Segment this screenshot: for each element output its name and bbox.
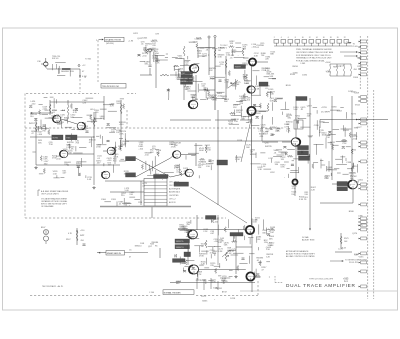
ref labels beside plug column upper: [348, 58, 363, 116]
svg-text:C5: C5: [129, 249, 131, 251]
svg-text:C319: C319: [354, 92, 360, 94]
svg-text:-150: -150: [80, 240, 84, 242]
ref labels pickoff: [286, 107, 312, 120]
resistor (detail 5) in wiring detail left block: [70, 103, 72, 109]
ref labels right lower: [338, 248, 359, 257]
wiring detail left lower extra: [76, 133, 126, 176]
resistor (detail 1) in wiring detail V494 core extra: [192, 76, 194, 82]
dashed partition bottom left: [30, 295, 161, 297]
wiring detail right rails: [320, 123, 356, 174]
svg-text:C168: C168: [197, 38, 203, 40]
svg-text:22K: 22K: [152, 45, 156, 47]
capacitor (detail 0) in wiring detail left upper extra: [34, 119, 37, 121]
capacitor (detail 1) in wiring detail below bus: [283, 147, 286, 149]
svg-text:12K: 12K: [264, 242, 268, 244]
arrowhead on wire: [79, 76, 81, 78]
boxed net label GND REF: [184, 252, 191, 257]
interconnecting socket row (pins 1-11): [274, 37, 349, 46]
resistor (detail 7) in wiring detail left block: [90, 115, 92, 121]
ref labels center-right extra: [237, 131, 296, 174]
boxed net label TRIG OUT: [206, 216, 217, 220]
svg-text:R453: R453: [337, 111, 343, 113]
dashed partition left vertical: [24, 94, 26, 219]
resistor (detail 2) in wiring detail left block: [48, 129, 50, 135]
svg-text:1.5K: 1.5K: [53, 173, 58, 175]
resistor R167: [76, 231, 78, 241]
svg-text:12K: 12K: [177, 79, 181, 81]
wire vertical x218: [217, 110, 219, 205]
dashed partition bottom vertical: [257, 281, 259, 295]
interconnecting plug column (dashed): [359, 36, 361, 90]
resistor (detail 1) in wiring detail right rails: [351, 149, 353, 155]
svg-text:12K: 12K: [116, 132, 120, 134]
boxed net label SWEEP TRIG: [296, 97, 307, 101]
boxed net label NORM TRIG: [230, 233, 243, 237]
vacuum tube V14B: [246, 272, 255, 281]
terminal post above node A: [78, 65, 80, 67]
wire vertical x296 lower: [295, 146, 297, 179]
svg-text:10K: 10K: [350, 178, 354, 180]
wire horizontal y165: [36, 164, 120, 166]
svg-text:1.5K: 1.5K: [155, 63, 160, 65]
resistor (detail 1) in wiring detail top mid extra: [229, 46, 235, 48]
svg-text:270K: 270K: [210, 79, 215, 81]
terminal post x215: [214, 35, 216, 37]
boxed net label NORM: [52, 135, 63, 140]
svg-text:12K: 12K: [233, 107, 237, 109]
svg-text:56K: 56K: [38, 142, 42, 144]
wiring detail upper-mid: [169, 56, 249, 100]
wire vertical x352: [351, 96, 353, 180]
svg-text:+150: +150: [224, 82, 230, 84]
svg-text:S/N 101: S/N 101: [52, 58, 59, 60]
wire sweep gate onward: [125, 252, 149, 254]
svg-text:1.5K: 1.5K: [226, 55, 231, 57]
ref labels below bus: [235, 145, 286, 171]
arrowhead R167 top: [76, 230, 78, 232]
svg-text:V534: V534: [355, 105, 361, 107]
svg-text:4.7K: 4.7K: [73, 112, 78, 114]
svg-text:V422: V422: [346, 185, 352, 187]
svg-text:SW387: SW387: [250, 154, 258, 156]
dashed net delayed trigger: [97, 40, 99, 82]
svg-text:+100: +100: [217, 95, 223, 97]
wiring detail lower cluster extra: [181, 230, 260, 278]
resistor (detail 1) in wiring detail lower cluster extra: [224, 227, 226, 233]
boxed net label SWEEP A: [175, 239, 190, 243]
wire R415 top: [67, 100, 69, 105]
svg-text:68K: 68K: [241, 119, 245, 121]
ref labels lower cluster top: [179, 219, 219, 235]
ground lower cluster: [234, 275, 237, 278]
svg-text:INPUT: INPUT: [29, 123, 36, 125]
capacitor C489: [204, 88, 207, 90]
resistor (detail 2) in wiring detail crossover: [180, 171, 182, 177]
resistor R21: [225, 252, 227, 261]
svg-text:56K: 56K: [174, 145, 178, 147]
svg-text:1.5K: 1.5K: [261, 166, 266, 168]
ref labels mid right: [258, 98, 293, 138]
wiring detail right mid extra: [313, 108, 352, 177]
svg-text:C 100: C 100: [149, 292, 154, 294]
ref labels lower cluster bottom: [176, 272, 228, 286]
svg-text:V421: V421: [133, 33, 139, 35]
svg-text:2.2K: 2.2K: [295, 118, 300, 120]
wire bus into V533: [262, 141, 278, 143]
svg-text:12K: 12K: [209, 70, 213, 72]
dashed partition upper: [26, 93, 99, 95]
boxed net label TRIGGER PICKOFF bottom: [163, 290, 194, 295]
capacitor C14: [242, 258, 245, 260]
svg-text:75K: 75K: [42, 131, 46, 133]
wire table to partition: [151, 206, 153, 218]
svg-text:ON PLUG-IN UNITS: ON PLUG-IN UNITS: [41, 194, 59, 196]
vacuum tube V414A: [53, 115, 61, 123]
svg-text:1.5K: 1.5K: [234, 121, 239, 123]
resistor (detail 3) in wiring detail crossover: [141, 164, 143, 170]
svg-text:DC BAL: DC BAL: [302, 236, 309, 239]
svg-text:+150: +150: [31, 103, 37, 105]
wire table left rail: [140, 181, 142, 205]
svg-text:SW214: SW214: [135, 246, 143, 248]
svg-text:+1 JM: +1 JM: [128, 40, 133, 42]
boxed net label VERT AMP: [174, 182, 189, 186]
svg-text:V274: V274: [354, 181, 360, 183]
ref labels beside plug column mid: [346, 127, 364, 187]
svg-text:PINS, TERMINAL NUMBERS SHOWN: PINS, TERMINAL NUMBERS SHOWN: [296, 48, 332, 51]
resistor (detail 1) in wiring detail trigger takeoff: [245, 75, 247, 81]
ref labels divider: [326, 66, 345, 74]
svg-text:NORM: NORM: [53, 137, 59, 139]
switch SW460 contact table: [144, 179, 167, 207]
resistor R502: [242, 48, 244, 56]
boxed net label TRIG: [66, 135, 78, 140]
vacuum tube V494B pentode: [189, 100, 198, 108]
svg-text:INVERT: INVERT: [235, 67, 241, 69]
svg-text:5.6K: 5.6K: [253, 222, 258, 224]
svg-text:5.6K: 5.6K: [293, 109, 298, 111]
svg-text:1M: 1M: [82, 125, 85, 127]
arrow line to interconnecting plug note: [330, 260, 343, 262]
wire V573 cathode down: [352, 189, 354, 203]
wire Q33 emitter to node A: [47, 68, 80, 70]
wire vertical x251 long: [251, 116, 253, 225]
capacitor (detail 0) in wiring detail lower cluster: [267, 234, 270, 236]
dashed partition upper cont: [127, 93, 136, 95]
resistor (detail 0) in wiring detail lower mid extra: [259, 260, 261, 266]
resistor (detail 2) in wiring detail below bus: [287, 155, 293, 157]
svg-text:22K: 22K: [265, 59, 269, 61]
arrowhead x310 bottom: [309, 229, 311, 231]
svg-text:100K: 100K: [327, 169, 332, 171]
svg-text:47: 47: [129, 257, 131, 259]
svg-text:ON INTERCONNECTING SOCKET ARE: ON INTERCONNECTING SOCKET ARE: [296, 51, 334, 54]
junction x94/y137: [93, 136, 94, 137]
svg-text:1.5K: 1.5K: [49, 144, 54, 146]
svg-text:OF DIAGRAM.: OF DIAGRAM.: [41, 205, 54, 208]
resistor (detail 1) in wiring detail left upper extra: [39, 110, 41, 116]
resistor R418: [93, 117, 95, 127]
resistor (detail 1) in wiring detail right mid extra: [351, 166, 353, 172]
vacuum tube V504B: [247, 86, 255, 93]
svg-text:B567: B567: [263, 134, 269, 136]
ref labels left of sweep trig: [286, 63, 308, 87]
capacitor (detail 3) in wiring detail lower cluster: [192, 268, 195, 270]
vacuum tube V414B: [77, 122, 85, 130]
note text block pin designations: [296, 48, 334, 63]
svg-text:ALTERNATE: ALTERNATE: [169, 187, 181, 190]
boxed net label +GATE: [126, 157, 136, 161]
ground x94: [92, 186, 95, 189]
ref labels near sweep gate: [135, 242, 159, 248]
boxed net label TRIG A: [259, 82, 268, 86]
boxed net label CRT PLATE: [337, 187, 348, 191]
svg-text:CH 1: CH 1: [182, 73, 186, 75]
resistor (detail 4) in wiring detail upper-mid: [187, 77, 189, 83]
svg-text:270K: 270K: [236, 112, 241, 114]
svg-text:56K: 56K: [246, 147, 250, 149]
ref labels near V573: [324, 167, 357, 180]
svg-text:100K: 100K: [116, 103, 121, 105]
vacuum tube V454B: [185, 169, 193, 177]
wire diag to V454A grid: [171, 156, 174, 159]
wire note bracket top: [38, 189, 40, 191]
note text to interconnecting plug: [345, 259, 368, 263]
wire into NORM box: [30, 136, 52, 138]
wire from J1 down: [149, 52, 151, 64]
svg-text:AR 47: AR 47: [222, 291, 227, 294]
svg-text:DC SHIFT: DC SHIFT: [321, 112, 331, 114]
svg-text:B586: B586: [349, 211, 355, 213]
resistor R30 (thick bar style): [62, 68, 71, 70]
svg-text:12K: 12K: [198, 167, 202, 169]
svg-text:56K: 56K: [276, 130, 280, 132]
wire crossover diagonal 1: [136, 158, 171, 177]
svg-text:D412: D412: [344, 130, 350, 132]
resistor (detail 2) in wiring detail V494 core extra: [208, 91, 210, 97]
svg-text:R171: R171: [201, 296, 207, 298]
resistor (detail 1) in wiring detail lower cluster: [232, 240, 238, 242]
svg-text:5.6K: 5.6K: [87, 179, 92, 181]
wire V504A plate out: [257, 61, 269, 63]
diagonal wire cathode V513: [241, 118, 252, 162]
svg-text:PLUG: PLUG: [353, 46, 359, 48]
capacitor (detail 0) in wiring detail lower cluster extra: [183, 271, 186, 273]
resistor R421: [120, 104, 122, 114]
wire bus y120: [215, 119, 236, 121]
junction y165: [67, 164, 68, 165]
svg-text:D193: D193: [308, 135, 314, 137]
wire x252 lower: [251, 281, 253, 292]
wiring detail left upper extra: [39, 97, 63, 130]
wire horizontal y203: [320, 202, 353, 204]
capacitor (detail 2) in wiring detail mid right: [297, 120, 299, 123]
dashed plug column right: [367, 36, 369, 299]
svg-text:2.2K: 2.2K: [119, 133, 124, 135]
svg-text:V135: V135: [359, 256, 365, 258]
arrowhead pot R21: [227, 254, 230, 257]
svg-text:ADJUST R333: ADJUST R333: [302, 239, 314, 242]
svg-text:+150: +150: [183, 170, 189, 172]
svg-text:56K: 56K: [269, 238, 273, 240]
svg-text:1.5K: 1.5K: [261, 127, 266, 129]
neon lamp B167: [44, 230, 49, 245]
wire y247 link: [236, 246, 252, 248]
svg-text:68K: 68K: [270, 54, 274, 56]
svg-text:56K: 56K: [270, 76, 274, 78]
wiring detail lower mid extra: [197, 233, 262, 280]
resistor (detail 0) in wiring detail right rails extra: [332, 145, 334, 151]
wire V504B to V513: [251, 93, 253, 106]
wire vertical x36: [35, 120, 37, 165]
wire into HORIZ OUT box: [332, 183, 337, 185]
dashed partition mid horizontal: [25, 127, 285, 129]
note text block bottom left 1: [41, 190, 69, 196]
svg-text:270K: 270K: [235, 159, 240, 161]
wire x236: [235, 236, 237, 274]
wiring detail trigger takeoff: [245, 70, 276, 98]
resistor (detail 6) in wiring detail lower cluster: [243, 225, 245, 231]
wire Q33 collector: [45, 58, 47, 62]
svg-text:2.2K: 2.2K: [342, 143, 347, 145]
input connector J1: [148, 48, 152, 52]
resistor R481: [214, 49, 216, 58]
svg-text:56K: 56K: [286, 124, 290, 126]
svg-text:14: 14: [316, 37, 318, 39]
wire grid feed V494A: [170, 74, 190, 76]
svg-text:AUX IN: AUX IN: [169, 201, 176, 204]
svg-text:68K: 68K: [192, 97, 196, 99]
svg-text:3.3K: 3.3K: [254, 55, 259, 57]
svg-text:10K: 10K: [270, 94, 274, 96]
svg-text:Q367: Q367: [307, 105, 313, 107]
wire Q33 base lead: [41, 63, 44, 65]
boxed net label CHOP BLANKING: [173, 259, 186, 263]
terminal post x209: [208, 36, 210, 38]
svg-text:3.3K: 3.3K: [218, 251, 223, 253]
boxed net label SW460 TRIG MODE: [154, 175, 169, 179]
svg-text:1.5K: 1.5K: [206, 166, 211, 168]
ref labels beside plug column lower: [349, 211, 364, 258]
svg-text:TEK 555/21A R1 + AL PL: TEK 555/21A R1 + AL PL: [42, 285, 63, 288]
capacitor (detail 0) in wiring detail upper-mid: [167, 89, 170, 91]
svg-text:68K: 68K: [176, 283, 180, 285]
capacitor C418: [86, 131, 89, 133]
plug pin boxes with arrows: [359, 40, 367, 288]
capacitor (detail 2) in wiring detail right rails: [342, 147, 345, 149]
wiring detail above chassis line: [104, 197, 140, 206]
ref labels upper-mid B: [176, 56, 218, 103]
svg-text:+100V: +100V: [325, 62, 331, 64]
capacitor (detail 0) in wiring detail V533 lower: [291, 164, 294, 166]
wire node A down: [79, 69, 81, 78]
svg-text:16: 16: [323, 37, 325, 39]
resistor (detail 0) in wiring detail right mid extra: [312, 163, 314, 169]
boxed net label TRIGGER PICKOFF upper: [101, 84, 126, 89]
boxed net label CH1 GAIN: [181, 72, 193, 75]
vacuum tube V433A: [102, 171, 110, 179]
resistor R24: [205, 240, 207, 248]
svg-text:8: 8: [295, 37, 296, 39]
wiring detail top mid extra: [200, 43, 247, 56]
svg-text:270K: 270K: [96, 147, 101, 149]
arrowhead y119 to plug: [356, 119, 358, 121]
wire V454A plate: [181, 154, 196, 156]
svg-text:D227: D227: [196, 280, 202, 282]
arrowhead to plug: [350, 42, 352, 44]
svg-text:TRIG: TRIG: [66, 137, 71, 139]
wire vertical x50: [49, 100, 51, 115]
capacitor (detail 1) in wiring detail right rails extra: [328, 132, 331, 134]
svg-text:SW235: SW235: [265, 146, 273, 148]
svg-text:22K: 22K: [307, 116, 311, 118]
wire y269: [199, 269, 246, 271]
wire into delayed trig label: [99, 39, 102, 41]
capacitor C458: [209, 160, 212, 162]
svg-text:TERMINALS OF EACH PLUG-IN UNIT: TERMINALS OF EACH PLUG-IN UNIT: [296, 57, 332, 60]
wire V424A to node: [68, 153, 94, 155]
capacitor (detail 2) in wiring detail right mid extra: [301, 150, 303, 153]
wire x188: [187, 245, 189, 265]
resistor R516: [267, 103, 269, 111]
boxed net label SWEEP GATE IN: [106, 251, 125, 256]
wire y282 bottom bus: [170, 282, 255, 284]
ref labels trigger takeoff: [242, 43, 276, 61]
ref labels bottom middle: [201, 296, 236, 302]
svg-text:100K: 100K: [211, 282, 216, 284]
wire top jog: [198, 47, 215, 49]
svg-text:10: 10: [302, 37, 304, 39]
svg-text:22K: 22K: [64, 164, 68, 166]
svg-text:SW570: SW570: [151, 41, 159, 43]
wire into switch table row 1: [105, 180, 144, 182]
wire note pointer 1: [340, 51, 357, 53]
note text block bottom left 2: [41, 197, 68, 208]
capacitor (detail 2) in wiring detail lower cluster: [256, 274, 259, 276]
svg-text:2: 2: [96, 40, 97, 42]
resistor R458: [205, 145, 207, 153]
svg-text:1.5K: 1.5K: [139, 144, 144, 146]
svg-text:-150: -150: [353, 69, 357, 71]
svg-text:(S/N 390): (S/N 390): [106, 43, 114, 45]
svg-text:C188: C188: [346, 162, 352, 164]
svg-text:0.1M: 0.1M: [82, 76, 87, 78]
svg-text:C300: C300: [101, 199, 107, 201]
thick gray chassis line: [100, 206, 191, 208]
vacuum tube V14A: [245, 225, 254, 234]
vacuum tube V454A: [173, 151, 181, 159]
svg-text:B169: B169: [286, 85, 292, 87]
svg-text:DELAYED TRIG IN: DELAYED TRIG IN: [105, 39, 121, 42]
resistor (detail 1) in wiring detail attenuator: [146, 49, 148, 55]
svg-text:D405: D405: [142, 38, 148, 40]
svg-text:+225V: +225V: [321, 107, 328, 109]
svg-text:C320: C320: [111, 199, 117, 201]
svg-text:2: 2: [274, 37, 275, 39]
svg-text:V272: V272: [351, 114, 357, 116]
ref labels left block upper right: [70, 100, 127, 135]
ref labels upper-mid C: [217, 62, 252, 103]
wire vertical x184: [183, 58, 185, 100]
svg-text:+100: +100: [212, 100, 218, 102]
vacuum tube V424A: [60, 150, 68, 158]
wiring detail attenuator: [140, 50, 168, 62]
svg-text:D583: D583: [332, 106, 338, 108]
wire trigger bus y229: [178, 229, 245, 231]
svg-text:75K: 75K: [242, 65, 246, 67]
svg-text:D360: D360: [354, 254, 360, 256]
resistor R167 network: [76, 228, 78, 245]
